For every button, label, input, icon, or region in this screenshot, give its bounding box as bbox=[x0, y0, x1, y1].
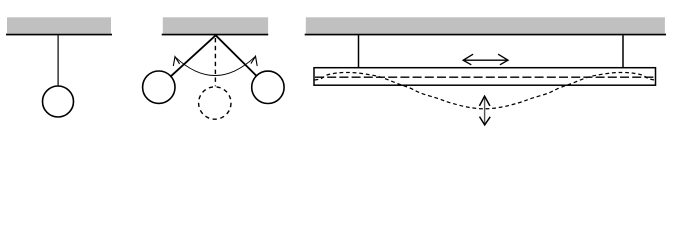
bob 2 dashed bbox=[199, 87, 231, 119]
mode shape dotted curve bbox=[315, 73, 655, 109]
string 2 right bbox=[216, 35, 257, 76]
vertical arrowhead bottom bbox=[480, 117, 491, 125]
ceiling 3 line bbox=[305, 34, 666, 36]
string 1 bbox=[57, 35, 59, 86]
swing arc bbox=[175, 56, 256, 75]
beam centerline dashed bbox=[315, 76, 654, 78]
horizontal arrowhead right bbox=[498, 54, 508, 65]
bob 1 bbox=[43, 86, 74, 117]
swing arrowhead right bbox=[251, 56, 257, 66]
ceiling 2 gray bbox=[163, 17, 268, 33]
ceiling 1 line bbox=[6, 34, 112, 36]
horizontal double arrow shaft bbox=[463, 59, 508, 61]
vertical arrowhead top bbox=[479, 96, 490, 106]
vertical double arrow shaft bbox=[484, 97, 486, 125]
horizontal arrowhead left bbox=[463, 54, 473, 65]
beam outline bbox=[314, 68, 656, 86]
ceiling 3 gray bbox=[306, 17, 665, 33]
hanger left bbox=[358, 35, 360, 67]
hanger right bbox=[622, 35, 624, 67]
bob 2 right bbox=[252, 71, 284, 103]
swing arrowhead left bbox=[173, 57, 179, 66]
ceiling 2 line bbox=[162, 34, 269, 36]
ceiling 1 gray bbox=[7, 17, 111, 33]
string 2 dashed center bbox=[214, 38, 216, 86]
string 2 left bbox=[171, 35, 216, 76]
bob 2 left bbox=[143, 71, 175, 103]
